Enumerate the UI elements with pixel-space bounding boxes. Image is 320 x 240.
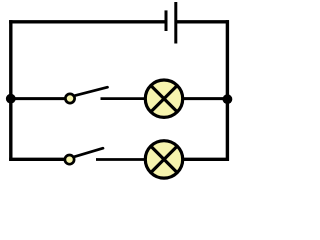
lamp L2 cross stroke 2 — [151, 146, 177, 172]
switch S2 blade (open) — [75, 148, 104, 157]
node B (right junction) — [223, 94, 233, 104]
lamp L2 body — [145, 141, 182, 178]
wire: left rail vertical — [9, 20, 12, 161]
wire: middle branch, left rail to switch S1 — [11, 97, 65, 100]
lamp L1 body — [145, 80, 182, 117]
battery B1 long plate (positive) — [174, 2, 177, 44]
lamp L1 cross stroke 2 — [151, 86, 177, 112]
lamp L1 cross stroke 1 — [151, 86, 177, 112]
switch S2 pivot circle — [65, 155, 74, 164]
wire: middle branch, lamp L1 to right rail — [183, 97, 227, 100]
wire: middle branch, switch S1 to lamp L1 — [101, 97, 146, 100]
wire: right rail vertical — [226, 20, 229, 161]
wire: bottom horizontal left segment — [9, 158, 64, 161]
battery B1 short plate (negative) — [165, 10, 168, 31]
wire: bottom branch, switch S2 to lamp L2 — [96, 158, 145, 161]
wire: top-right horizontal from battery to right rail — [176, 20, 229, 23]
switch S1 pivot circle — [65, 94, 74, 103]
wire: top-left horizontal from battery to left rail — [9, 20, 166, 23]
node A (left junction) — [6, 94, 16, 104]
switch S1 blade (open) — [75, 87, 108, 95]
wire: bottom branch, lamp L2 to right rail — [183, 158, 229, 161]
lamp L2 cross stroke 1 — [151, 146, 177, 172]
